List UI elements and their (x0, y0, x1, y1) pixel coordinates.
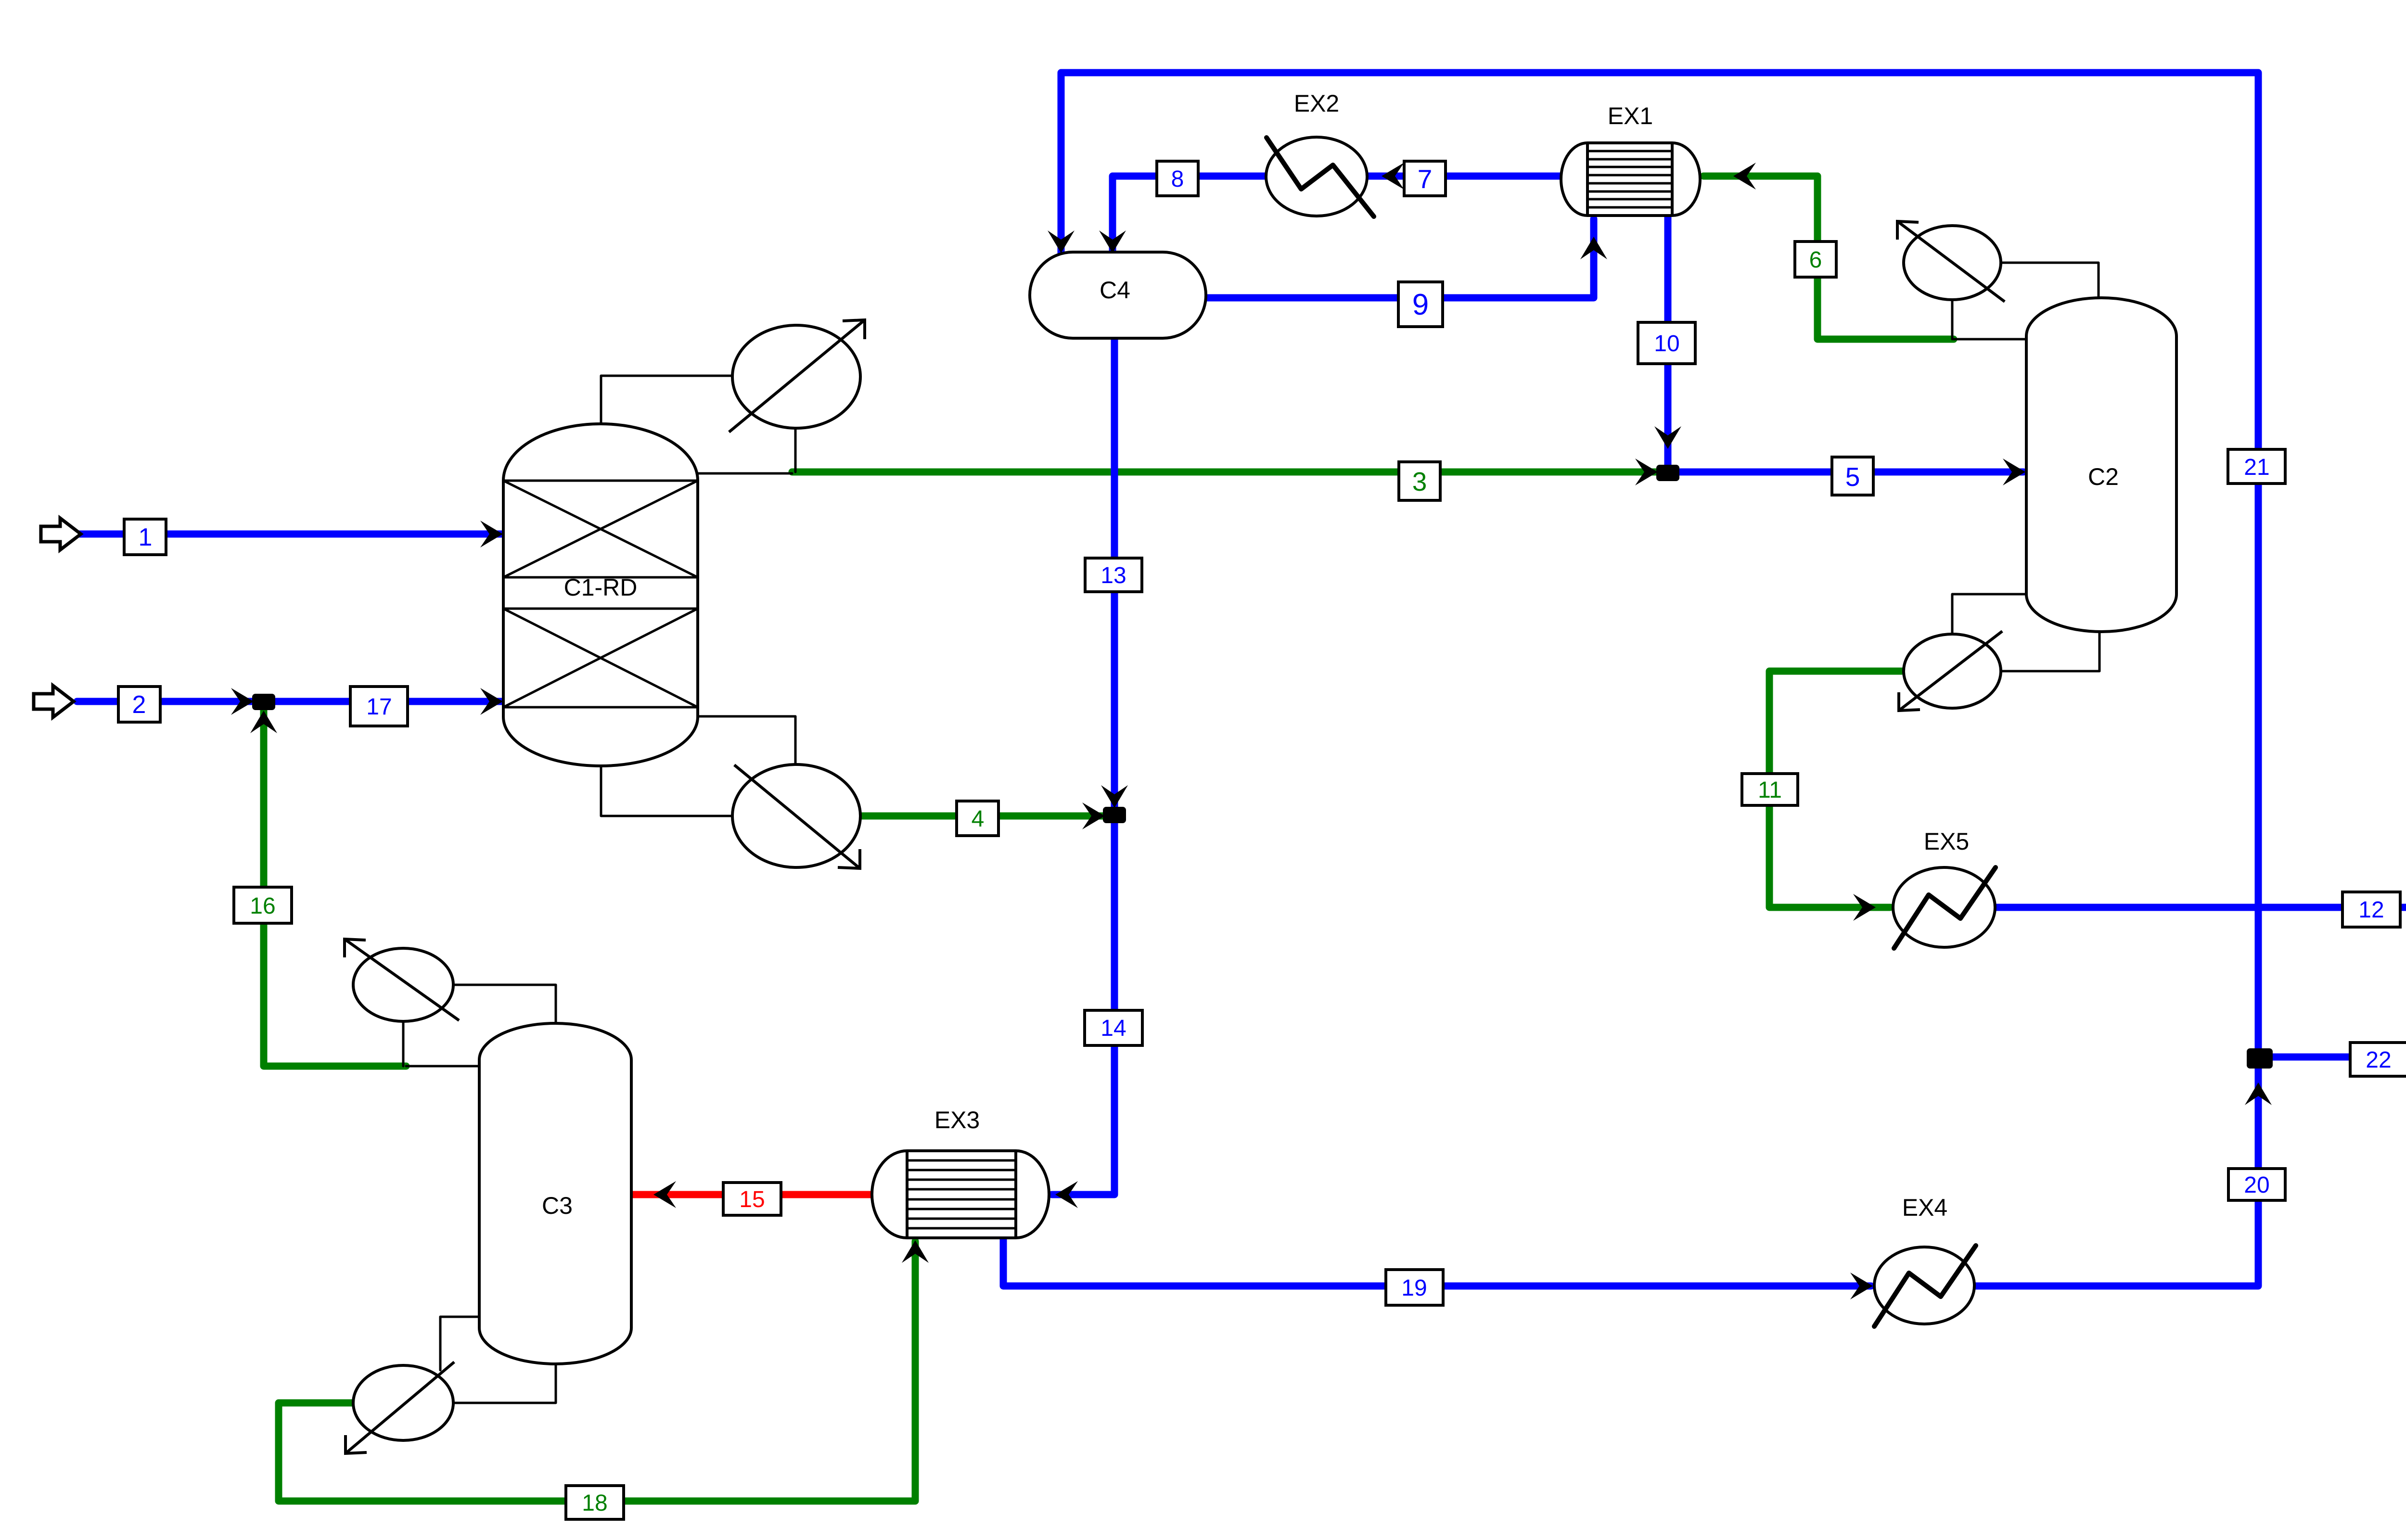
svg-text:C2: C2 (2088, 463, 2119, 490)
wire C3 bottom to reboiler (452, 1363, 556, 1403)
label box stream 10 (1638, 322, 1695, 364)
svg-text:5: 5 (1845, 462, 1860, 492)
svg-text:16: 16 (250, 893, 275, 919)
wire C2 condenser outlet to column (1954, 338, 2026, 341)
label box stream 16 (234, 887, 292, 923)
label C1-RD (564, 574, 638, 601)
input arrow stream 2 (34, 686, 74, 717)
svg-text:C3: C3 (542, 1192, 573, 1219)
wire C3 top to condenser (452, 985, 556, 1024)
svg-text:17: 17 (366, 694, 392, 720)
svg-text:9: 9 (1412, 288, 1429, 321)
label box stream 9 (1398, 282, 1443, 327)
svg-text:11: 11 (1758, 777, 1782, 803)
wire stream 1 feed line (77, 531, 502, 538)
svg-text:18: 18 (582, 1490, 607, 1516)
C1-RD condenser (729, 320, 865, 432)
wire C2 side to reboiler (1952, 594, 2026, 635)
label box stream 18 (566, 1486, 624, 1519)
arrow stream 1 into C1-RD (480, 521, 503, 547)
svg-text:2: 2 (132, 691, 146, 719)
wire stream 5 (mixer to C2) (1668, 469, 2023, 476)
arrow stream 4 into mixer (1082, 802, 1105, 829)
label box stream 6 (1795, 242, 1836, 277)
wire stream 20 (EX4 to splitter) (1974, 1057, 2258, 1286)
wire C3 condenser outlet to column (406, 1065, 479, 1068)
label C4 (1100, 277, 1130, 304)
svg-text:22: 22 (2366, 1047, 2391, 1073)
wire stream 3 (C1-RD overhead) (792, 469, 1668, 476)
svg-text:6: 6 (1809, 247, 1822, 273)
svg-text:1: 1 (139, 523, 153, 551)
arrow stream 14 into EX3 (1055, 1181, 1078, 1208)
column C3 (479, 1023, 631, 1364)
label box stream 19 (1386, 1270, 1443, 1305)
svg-text:13: 13 (1101, 563, 1126, 588)
arrow stream 21 into C4 (1048, 230, 1075, 253)
C2 reboiler (1899, 631, 2002, 711)
drum C4 (1030, 252, 1206, 338)
wire C2 condenser inlet (2000, 263, 2099, 308)
input arrow stream 1 (41, 518, 81, 550)
label box stream 22 (2350, 1043, 2406, 1076)
wire C1-RD top side to stream 3 (698, 472, 792, 475)
label box stream 17 (350, 687, 408, 726)
wire stream 17 (mixer to column C1-RD) (264, 698, 502, 705)
exchanger EX1 (1561, 143, 1700, 216)
svg-text:12: 12 (2358, 897, 2384, 923)
svg-text:19: 19 (1401, 1275, 1427, 1301)
arrow stream 16 into mixer (250, 711, 277, 733)
wire stream 7 (EX1 to EX2) (1367, 173, 1561, 180)
arrow stream 9 into EX1 (1580, 237, 1607, 259)
svg-text:C1-RD: C1-RD (564, 574, 638, 601)
wire stream 15 (EX3 to C3) (631, 1191, 874, 1198)
label box stream 12 (2342, 892, 2400, 927)
wire stream 22 (splitter to outlet) (2258, 1054, 2406, 1061)
junction mixer streams 2+16 (252, 694, 275, 710)
wire stream 8 (EX2 to C4) (1113, 176, 1267, 255)
wire stream 19 (EX3 to EX4) (1003, 1238, 1871, 1286)
label box stream 8 (1157, 161, 1198, 196)
wire C1-RD bottom to reboiler inlet (601, 764, 733, 816)
C1-RD reboiler (732, 764, 860, 868)
wire stream 2 feed line (77, 698, 264, 705)
svg-text:EX4: EX4 (1902, 1194, 1948, 1221)
arrow stream 13 into mixer (1101, 785, 1128, 808)
wire stream 11 (C2 reboiler to EX5) (1769, 671, 1902, 907)
wire stream 14 (mixer to EX3) (1052, 816, 1114, 1195)
wire stream 18 (C3 reboiler to EX3) (279, 1241, 915, 1501)
svg-text:15: 15 (739, 1187, 765, 1212)
exchanger EX5 (1893, 867, 1996, 948)
svg-text:3: 3 (1412, 467, 1427, 496)
arrow stream 2 into mixer (231, 688, 254, 715)
wire stream 13 (C4 bottom to mixer) (1111, 338, 1118, 816)
svg-text:EX1: EX1 (1608, 102, 1653, 129)
C2 condenser (1897, 221, 2005, 302)
wire C1-RD condenser outlet drop (794, 426, 797, 472)
junction splitter streams 20-21-22 (2247, 1048, 2273, 1069)
svg-text:21: 21 (2244, 455, 2269, 480)
junction mixer streams 3+10 (1656, 465, 1679, 481)
label box stream 1 (124, 519, 166, 555)
exchanger EX4 (1874, 1246, 1976, 1326)
C3 condenser (345, 939, 459, 1021)
wire C1-RD bottom side to reboiler (698, 716, 795, 765)
svg-text:4: 4 (972, 806, 985, 832)
label box stream 20 (2228, 1169, 2285, 1200)
svg-text:10: 10 (1654, 331, 1679, 356)
svg-text:7: 7 (1418, 164, 1433, 194)
arrow stream 15 into C3 (653, 1181, 676, 1208)
svg-text:EX2: EX2 (1294, 90, 1340, 117)
wire C2 condenser outlet drop (1951, 299, 1954, 339)
wire stream 4 (C1-RD bottoms) (859, 813, 1114, 820)
label box stream 15 (723, 1183, 781, 1215)
exchanger EX3 (872, 1151, 1049, 1238)
svg-text:EX3: EX3 (934, 1107, 980, 1133)
junction mixer streams 13+4 (1103, 807, 1126, 823)
wire stream 12 (EX5 to outlet) (1995, 904, 2406, 911)
svg-text:8: 8 (1171, 166, 1184, 192)
label box stream 14 (1085, 1010, 1142, 1045)
label EX4 (1902, 1194, 1948, 1221)
arrow stream 6 into EX1 (1733, 163, 1756, 190)
wire C3 side to reboiler (440, 1317, 479, 1370)
wire stream 16 (C3 condenser to mixer) (264, 701, 406, 1066)
label box stream 3 (1399, 462, 1440, 500)
column C2 (2026, 298, 2176, 632)
arrow stream 7 into EX2 (1382, 163, 1404, 190)
arrow stream 5 into C2 (2003, 458, 2025, 485)
wire stream 21 recycle line (splitter to C4 top) (1061, 73, 2258, 1057)
exchanger EX2 (1266, 137, 1374, 216)
arrow stream 8 into C4 (1099, 230, 1126, 253)
label EX5 (1924, 828, 1970, 855)
wire C3 condenser outlet drop (402, 1021, 405, 1066)
wire stream 9 (C4 to EX1) (1206, 219, 1594, 298)
arrow stream 20 into splitter (2245, 1082, 2272, 1105)
label C3 (542, 1192, 573, 1219)
label box stream 11 (1742, 774, 1798, 805)
label C2 (2088, 463, 2119, 490)
label box stream 21 (2228, 449, 2285, 484)
C3 reboiler (346, 1362, 454, 1453)
label box stream 13 (1085, 558, 1142, 592)
arrow stream 19 into EX4 (1850, 1273, 1873, 1299)
label box stream 5 (1832, 457, 1873, 495)
wire C1-RD top to condenser (601, 376, 733, 423)
svg-text:C4: C4 (1100, 277, 1130, 304)
label EX1 (1608, 102, 1653, 129)
wire C2 bottom to reboiler (2000, 628, 2099, 671)
svg-text:14: 14 (1101, 1016, 1126, 1041)
wire stream 10 (EX1 to mixer) (1664, 216, 1672, 469)
label box stream 7 (1404, 161, 1446, 196)
svg-text:EX5: EX5 (1924, 828, 1970, 855)
label box stream 4 (957, 801, 998, 836)
wire stream 6 (C2 condenser to EX1) (1703, 176, 1954, 339)
svg-text:20: 20 (2244, 1172, 2269, 1198)
arrow stream 17 into C1-RD (480, 688, 503, 715)
arrow stream 11 into EX5 (1853, 894, 1876, 921)
label EX2 (1294, 90, 1340, 117)
arrow stream 10 into mixer (1654, 426, 1681, 449)
arrow stream 3 into mixer (1635, 458, 1658, 485)
label box stream 2 (118, 687, 160, 722)
arrow stream 18 into EX3 (902, 1240, 929, 1263)
column C1-RD (503, 424, 698, 766)
label EX3 (934, 1107, 980, 1133)
